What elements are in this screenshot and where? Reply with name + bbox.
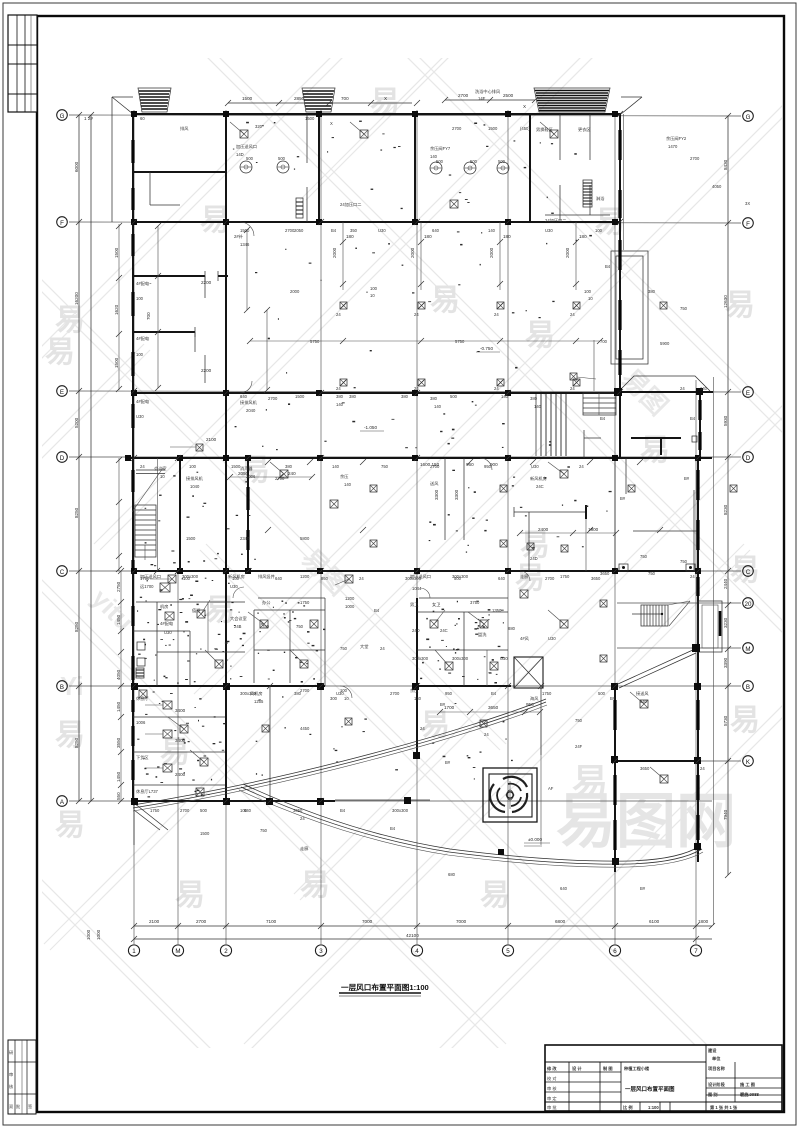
svg-text:1006: 1006 [136,720,146,725]
right dimension chain [723,113,731,878]
svg-text:设计阶段: 设计阶段 [708,1081,726,1088]
svg-text:-0.750: -0.750 [480,346,493,351]
wall x615 below B [614,686,616,872]
svg-text:海风: 海风 [530,695,539,702]
partition walls D-C left [136,458,315,571]
svg-text:6800: 6800 [555,919,566,924]
axis line F [69,222,741,223]
svg-text:1350: 1350 [492,608,502,613]
svg-text:8250: 8250 [74,737,79,748]
column grid line 1 [133,110,135,944]
bottom-left signature table [8,1040,36,1114]
svg-text:下货区: 下货区 [136,754,149,761]
svg-text:1 2#: 1 2# [84,116,93,121]
svg-text:1000: 1000 [86,929,91,940]
svg-text:4#配电: 4#配电 [160,620,174,627]
svg-text:5200: 5200 [74,417,79,428]
column grid line 2 [225,110,227,944]
svg-text:X: X [330,121,333,126]
svg-text:B4: B4 [390,826,396,831]
svg-text:300x300: 300x300 [182,574,199,579]
svg-text:易: 易 [300,869,330,902]
svg-text:3300: 3300 [454,489,459,500]
structural columns row G [131,111,618,117]
partition wall x417 below B [417,686,541,755]
structural columns row B [131,683,701,690]
grid circle C right [743,566,754,577]
svg-text:24B: 24B [234,624,242,629]
svg-text:750: 750 [296,624,304,629]
svg-text:7000: 7000 [456,919,467,924]
wall y761 right K row [615,760,698,762]
svg-text:4#配电: 4#配电 [136,398,150,405]
svg-text:2700: 2700 [268,396,278,401]
svg-text:42100: 42100 [406,933,419,938]
structural columns row E [131,388,703,396]
wall B row [133,685,511,687]
louver unit top 1 [138,88,171,112]
svg-text:2700: 2700 [458,93,469,98]
svg-text:1750: 1750 [542,691,552,696]
svg-text:3650: 3650 [591,576,601,581]
svg-text:余压阀FY7: 余压阀FY7 [430,145,451,152]
left rooms B-A dividers [133,686,226,801]
svg-text:5: 5 [506,948,510,955]
interior dim chain x247 F-E [244,227,270,393]
svg-text:B#: B# [610,696,616,701]
svg-text:8230: 8230 [723,504,728,515]
svg-text:机房: 机房 [160,603,168,610]
svg-text:1500: 1500 [488,126,498,131]
svg-text:项目名称: 项目名称 [708,1065,726,1072]
svg-text:24C: 24C [440,628,448,633]
axis line E [69,391,741,392]
svg-text:2700: 2700 [690,156,700,161]
svg-text:易: 易 [55,809,85,842]
partition wall x270 C-A [269,686,271,801]
svg-text:2200: 2200 [201,280,212,285]
svg-text:140: 140 [488,228,496,233]
bottom grid circle 1 [128,945,139,956]
canopy corner top-right [621,97,642,114]
svg-text:24: 24 [359,576,364,581]
svg-text:700: 700 [146,312,151,320]
bottom grid circle M [172,945,183,956]
svg-text:16200: 16200 [74,292,79,305]
corridor wall y598 [136,598,508,602]
svg-text:100: 100 [136,296,144,301]
svg-text:6100: 6100 [649,919,660,924]
svg-text:380: 380 [648,289,656,294]
axis line K right [660,760,741,762]
svg-text:140: 140 [336,402,344,407]
svg-text:1346: 1346 [240,242,250,247]
left dimension chain [74,112,101,940]
svg-text:5730: 5730 [723,715,728,726]
svg-text:750: 750 [648,571,656,576]
svg-text:300x300: 300x300 [452,656,469,661]
svg-text:1500: 1500 [242,96,253,101]
svg-text:750: 750 [260,828,268,833]
svg-text:100: 100 [370,286,378,291]
svg-text:远1700: 远1700 [140,583,154,590]
svg-text:B4: B4 [491,691,497,696]
axis line B [69,685,741,687]
right exterior wall lower [697,458,699,862]
terrace edge line right [713,377,715,925]
svg-text:1450: 1450 [116,771,121,782]
svg-text:F: F [60,220,64,227]
svg-text:5800: 5800 [300,536,310,541]
svg-text:会议室: 会议室 [154,465,167,472]
partition walls D-C middle rooms [420,458,626,571]
axis line A [69,800,712,802]
svg-text:24: 24 [700,766,705,771]
svg-text:140: 140 [534,404,542,409]
svg-text:易: 易 [175,879,205,912]
svg-text:380: 380 [430,396,438,401]
small stair E-D [583,340,616,415]
svg-text:大会议室: 大会议室 [230,615,247,622]
svg-text:1470: 1470 [668,144,678,149]
svg-text:C: C [746,569,751,576]
svg-text:一层风口布置平面图: 一层风口布置平面图 [625,1085,675,1093]
svg-text:2340: 2340 [240,536,250,541]
grid circle F right [743,218,754,229]
svg-text:700: 700 [600,339,608,344]
svg-text:5930: 5930 [723,415,728,426]
svg-text:D: D [746,455,751,462]
svg-text:24: 24 [579,464,584,469]
grid circle C left [57,566,68,577]
svg-text:950: 950 [321,576,329,581]
diffusers D-C band [370,485,737,547]
svg-text:办公: 办公 [262,599,271,606]
svg-text:易: 易 [572,761,608,802]
grid circle D right [743,452,754,463]
svg-text:950: 950 [445,691,453,696]
svg-text:300: 300 [330,696,338,701]
grid circle A left [57,796,68,807]
svg-text:750: 750 [381,464,389,469]
svg-text:24D: 24D [530,556,538,561]
bottom grid circle 7 [690,945,701,956]
curved canopy wall band [133,699,547,811]
svg-text:10: 10 [160,474,165,479]
svg-text:2050: 2050 [294,228,304,233]
svg-text:300x300: 300x300 [452,574,469,579]
svg-text:1700: 1700 [444,705,455,710]
svg-text:500: 500 [498,159,506,164]
column grid line 5 [507,110,509,944]
svg-text:加压送风口: 加压送风口 [236,143,257,150]
axis line G [69,115,741,116]
partition wall column2 mid [225,222,227,393]
right exterior wall upper [620,114,624,392]
svg-text:1500: 1500 [305,116,315,121]
svg-text:D: D [60,455,65,462]
svg-text:24: 24 [336,312,341,317]
diffusers B-A band [262,600,607,732]
svg-text:易: 易 [55,719,85,752]
svg-text:3: 3 [319,948,323,955]
svg-text:950: 950 [526,702,534,707]
wall C row [133,570,698,572]
svg-text:设 计: 设 计 [572,1065,582,1072]
room labels F-E left [136,280,212,373]
air outlets on C wall [619,564,695,571]
dimension clutter texts [140,88,750,891]
svg-text:24D: 24D [412,628,420,633]
svg-text:24: 24 [380,646,385,651]
left rooms F-E dividers [133,223,228,391]
structural columns row A and curve [131,752,701,865]
dense symbol clutter [114,121,612,798]
column grid line 4 [416,110,418,944]
svg-text:700: 700 [341,96,349,101]
svg-text:B4: B4 [690,416,696,421]
stairwell box protruding right [698,601,722,652]
svg-text:休息厅L737: 休息厅L737 [136,788,159,795]
svg-text:100: 100 [584,289,592,294]
svg-text:单位: 单位 [712,1055,721,1062]
svg-text:640: 640 [240,394,248,399]
svg-text:B#: B# [445,760,451,765]
svg-text:500: 500 [450,394,458,399]
svg-text:500: 500 [246,156,254,161]
svg-text:2750: 2750 [116,581,121,592]
svg-text:淋浴: 淋浴 [596,195,605,202]
partition wall column3 top [318,114,320,222]
svg-text:500: 500 [278,156,286,161]
partition wall column4 top [414,114,416,222]
grid circle F left [57,217,68,228]
bay window right E [611,251,648,364]
structural columns row C [131,568,701,574]
svg-text:2500: 2500 [503,93,514,98]
bottom grid circle 3 [315,945,326,956]
svg-text:更衣区: 更衣区 [578,126,591,133]
svg-text:2700: 2700 [275,476,285,481]
svg-text:750: 750 [340,646,348,651]
svg-text:640: 640 [560,886,568,891]
shaft wall x307 [296,114,307,222]
svg-text:1750: 1750 [560,574,570,579]
svg-text:U30: U30 [531,464,539,469]
svg-text:E: E [60,389,64,396]
svg-text:余压阀FY2: 余压阀FY2 [666,135,687,142]
svg-text:750: 750 [680,559,688,564]
svg-text:24F: 24F [575,744,583,749]
svg-text:24: 24 [690,574,695,579]
svg-text:880: 880 [508,626,516,631]
hall dimension line F-E [247,338,603,344]
grid circle G left [57,110,68,121]
axis line M right [617,647,741,649]
svg-text:图 别: 图 别 [708,1091,718,1098]
svg-text:7940: 7940 [723,809,728,820]
svg-text:8250: 8250 [74,507,79,518]
svg-text:12630: 12630 [723,295,728,308]
svg-text:风机房: 风机房 [250,690,263,697]
svg-text:140: 140 [700,386,708,391]
svg-text:审: 审 [9,1071,13,1078]
top dimension chain left part [225,96,420,106]
svg-text:3650: 3650 [600,571,610,576]
svg-text:24: 24 [336,386,341,391]
svg-text:1620: 1620 [114,304,119,315]
svg-text:B#: B# [440,702,446,707]
staircase middle E-D [536,394,601,458]
svg-text:750: 750 [575,718,583,723]
svg-text:5900: 5900 [660,341,670,346]
svg-text:1500: 1500 [200,831,210,836]
svg-text:2700: 2700 [196,919,207,924]
svg-text:1040: 1040 [190,484,200,489]
dimension drops below F wall [332,222,587,290]
svg-text:1000: 1000 [345,604,355,609]
svg-text:制 图: 制 图 [603,1065,613,1072]
bottom grid circle 4 [411,945,422,956]
svg-text:180: 180 [579,234,587,239]
svg-text:24: 24 [420,726,425,731]
svg-text:校 对: 校 对 [547,1075,557,1082]
I-beam column detail [631,436,697,455]
svg-text:2400: 2400 [538,527,549,532]
bottom grid circle 5 [502,945,513,956]
svg-text:100: 100 [136,352,144,357]
svg-text:6: 6 [613,948,617,955]
axis line 20 right [617,602,741,604]
svg-text:大堂: 大堂 [360,643,368,650]
louver unit top 2 [302,88,335,112]
svg-text:种植工程小楼: 种植工程小楼 [623,1065,650,1072]
svg-text:640: 640 [275,576,283,581]
wall F row [133,221,621,223]
svg-text:X: X [523,104,526,109]
svg-text:B4: B4 [331,228,337,233]
svg-text:750: 750 [680,306,688,311]
svg-text:20: 20 [745,601,752,608]
svg-text:3550: 3550 [116,737,121,748]
svg-text:2700: 2700 [452,126,462,131]
svg-text:180: 180 [346,234,354,239]
svg-text:2700: 2700 [180,808,190,813]
left rooms B-A fixtures [136,583,204,796]
right rooms D-C partitions [615,458,698,571]
svg-text:女卫: 女卫 [432,601,440,608]
svg-text:2: 2 [224,948,228,955]
svg-text:2000: 2000 [489,247,494,258]
svg-text:3390: 3390 [723,657,728,668]
svg-text:1450: 1450 [116,614,121,625]
middle room cluster C-B walls [254,598,325,686]
tick marks [175,219,663,804]
svg-text:500: 500 [200,808,208,813]
svg-text:易: 易 [205,594,235,627]
svg-text:2000: 2000 [410,247,415,258]
svg-text:140: 140 [434,404,442,409]
level marks [360,346,550,846]
svg-text:U30: U30 [378,228,386,233]
svg-text:320: 320 [255,124,263,129]
svg-text:380: 380 [530,396,538,401]
svg-text:7100: 7100 [266,919,277,924]
grid circle K right [743,756,754,767]
svg-text:易: 易 [430,284,460,317]
grid circle B left [57,681,68,692]
svg-text:1000: 1000 [96,929,101,940]
svg-text:60: 60 [140,116,145,121]
svg-text:24: 24 [494,386,499,391]
svg-text:余压: 余压 [340,473,348,480]
svg-text:1750: 1750 [150,808,160,813]
svg-text:洗浴中心排风: 洗浴中心排风 [475,88,501,95]
svg-text:易: 易 [45,336,75,369]
escalator diagonal [618,644,700,688]
svg-text:100: 100 [340,688,348,693]
svg-text:3650: 3650 [293,808,303,813]
structural columns row D [125,455,701,461]
column grid line 3 [320,110,322,944]
svg-text:3230: 3230 [723,617,728,628]
svg-text:24: 24 [414,312,419,317]
dim chain above walkway [437,702,543,845]
svg-text:6000: 6000 [74,161,79,172]
svg-text:±0.000: ±0.000 [528,837,542,842]
svg-text:1750: 1750 [300,600,310,605]
svg-text:B4: B4 [340,808,346,813]
svg-text:U30: U30 [164,630,172,635]
bottom grid circle 2 [220,945,231,956]
svg-text:比 例: 比 例 [623,1104,633,1111]
bottom-left room cluster C-B walls [133,571,245,698]
svg-text:640: 640 [640,699,648,704]
svg-text:G: G [746,114,751,121]
partition wall x530 top [529,114,531,222]
svg-text:新风机房: 新风机房 [530,475,547,482]
svg-text:7000: 7000 [362,919,373,924]
exhaust fan symbols top rooms [240,161,509,174]
svg-text:1: 1 [132,948,136,955]
svg-text:14D: 14D [236,152,244,157]
svg-text:24加压口二: 24加压口二 [545,217,566,224]
louver unit top 3 [534,88,610,112]
svg-text:易: 易 [525,319,555,352]
wall D row [127,457,712,459]
svg-text:3300: 3300 [434,489,439,500]
svg-text:550: 550 [116,792,121,800]
svg-text:1500: 1500 [114,357,119,368]
curved walkway band [239,784,703,867]
svg-text:3650: 3650 [640,766,650,771]
svg-text:易: 易 [480,879,510,912]
svg-text:180: 180 [424,234,432,239]
svg-text:一层风口布置平面图1:100: 一层风口布置平面图1:100 [341,982,429,992]
svg-text:1500: 1500 [240,228,250,233]
wall A row [133,800,430,801]
bottom dimension chain [131,919,715,942]
svg-text:5750: 5750 [455,339,465,344]
svg-text:10: 10 [370,293,375,298]
svg-text:2000: 2000 [565,247,570,258]
svg-text:易: 易 [55,304,85,337]
svg-text:24: 24 [494,312,499,317]
grid circle E right [743,387,754,398]
svg-text:1800: 1800 [698,919,709,924]
structural columns row F [131,219,618,225]
svg-text:3X: 3X [745,201,750,206]
